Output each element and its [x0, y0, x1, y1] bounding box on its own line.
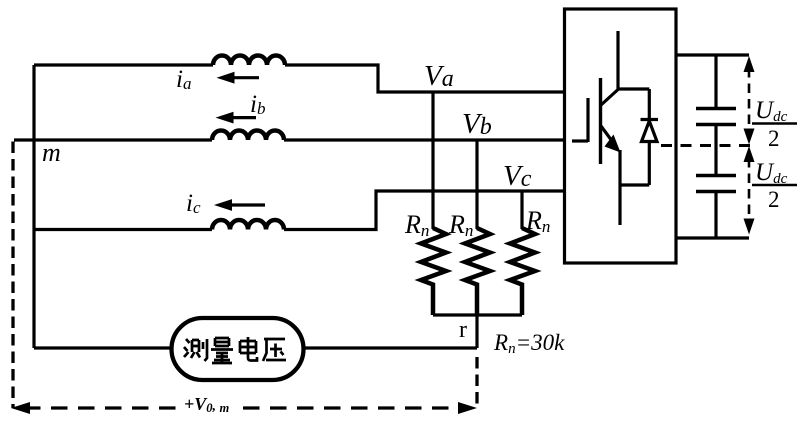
label Udc/2 lower fraction: [752, 159, 797, 212]
wire dashed drop from node r: [475, 357, 478, 405]
wire bottom line left of measurement box: [34, 346, 172, 349]
svg-text:2: 2: [768, 187, 780, 212]
svg-text:Udc: Udc: [755, 159, 788, 187]
wire node Va drop: [431, 92, 434, 229]
inductor La: [213, 56, 285, 66]
arrowhead left of dimension line: [11, 402, 30, 414]
svg-text:m: m: [42, 138, 61, 167]
measurement box (voltage measurement pill): [172, 318, 304, 380]
resistor Rn3: [510, 228, 535, 315]
inductor Lc: [212, 220, 284, 230]
wire node Vc drop: [520, 191, 523, 229]
wire phase c right segment with step up to Vc level: [284, 191, 566, 230]
transistor Q1 gate bar: [586, 98, 589, 142]
wire dashed dc midpoint line: [661, 144, 752, 147]
svg-text:ib: ib: [250, 91, 265, 118]
svg-text:2: 2: [768, 126, 780, 151]
svg-text:Rn: Rn: [525, 206, 550, 236]
resistor Rn1: [421, 228, 446, 315]
transistor Q1 body bar: [599, 78, 602, 164]
wire phase b left segment: [14, 138, 212, 141]
wire dashed bottom dimension line: [24, 406, 176, 409]
current arrow ic: [214, 199, 265, 211]
wire diode bottom branch: [620, 183, 649, 186]
transistor Q1 emitter diagonal with arrow: [601, 126, 621, 153]
wire dc bottom rail: [676, 236, 749, 239]
inductor Lb: [212, 131, 284, 141]
current arrow ia: [217, 72, 260, 84]
svg-text:Vb: Vb: [462, 108, 492, 140]
wire phase b right segment: [284, 138, 566, 141]
wire node Vb drop: [475, 140, 478, 229]
svg-text:Rn: Rn: [448, 210, 473, 240]
label measure-voltage char 4 (ya): [263, 339, 286, 361]
svg-text:r: r: [459, 317, 467, 343]
svg-text:+V0, m: +V0, m: [184, 394, 230, 415]
wire between capacitors: [714, 125, 717, 176]
resistor Rn2: [465, 228, 490, 315]
label Udc/2 upper fraction: [752, 97, 797, 151]
capacitor C2: [696, 176, 736, 239]
transistor Q1 emitter lead: [618, 150, 621, 225]
label measure-voltage char 1 (ce): [184, 339, 207, 361]
label measure-voltage char 3 (dian): [240, 337, 257, 361]
dimension arrow Udc/2 lower: [744, 146, 755, 235]
transistor Q1 collector diagonal: [601, 90, 618, 106]
inverter module box U1: [565, 9, 677, 263]
label measure-voltage char 2 (liang): [211, 338, 233, 363]
transistor Q1 gate lead: [572, 139, 588, 142]
svg-text:Rn=30k: Rn=30k: [493, 330, 565, 357]
svg-text:Udc: Udc: [755, 97, 788, 125]
svg-text:ia: ia: [176, 66, 191, 93]
wire phase a right segment with step down to Va level: [285, 65, 566, 92]
dimension arrow Udc/2 upper: [744, 56, 755, 145]
diode D1: [641, 89, 659, 185]
wire resistor bottom bus: [433, 313, 522, 316]
svg-text:Vc: Vc: [503, 160, 532, 192]
wire diode top branch: [618, 87, 649, 90]
wire dc top rail: [676, 53, 749, 56]
svg-text:Rn: Rn: [404, 210, 429, 240]
wire bottom line right of measurement box: [303, 346, 477, 349]
current arrow ib: [216, 112, 257, 124]
wire dashed left vertical (m reference): [11, 142, 14, 409]
wire left vertical bus from phase a to bottom: [32, 65, 35, 348]
wire phase c left segment: [34, 228, 212, 231]
svg-text:Va: Va: [424, 60, 454, 92]
wire node r drop: [475, 315, 478, 348]
svg-text:ic: ic: [186, 190, 201, 217]
capacitor C1: [696, 55, 736, 125]
transistor Q1 (IGBT) collector lead: [616, 31, 619, 90]
wire phase a left segment: [34, 63, 213, 66]
arrowhead right of dimension line: [458, 402, 477, 414]
